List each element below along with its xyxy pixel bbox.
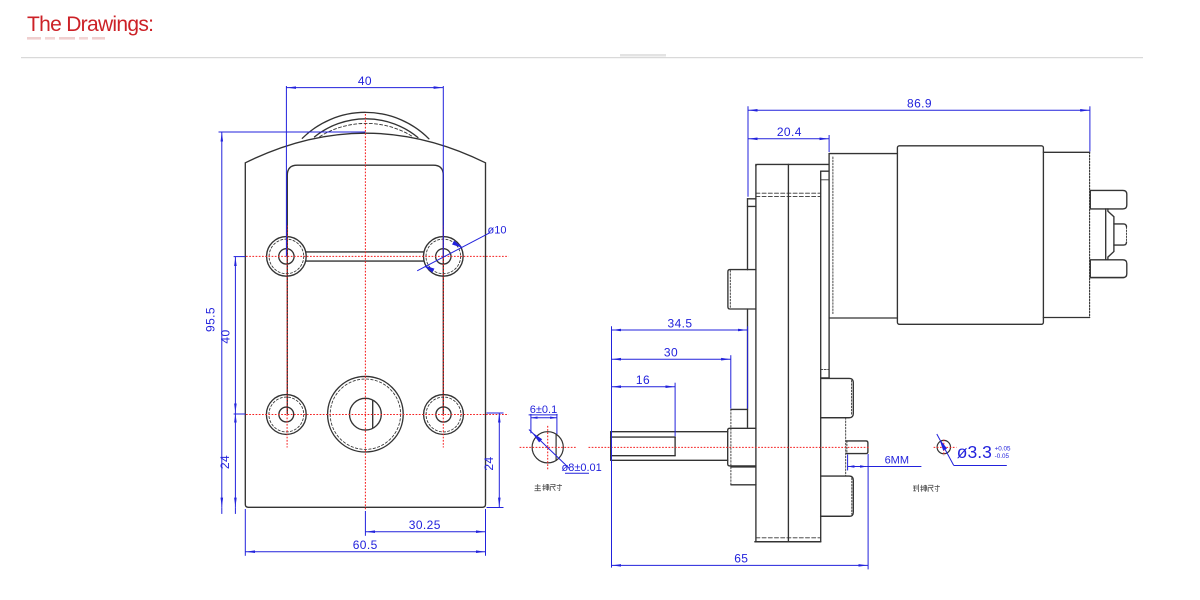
dome arc inner: [315, 119, 418, 138]
main shaft section detail circle: [532, 432, 563, 463]
front view centerlines: [246, 114, 509, 511]
rear spacer column: [821, 318, 829, 378]
end cap bottom tab: [1090, 260, 1127, 278]
gearbox plate front face: [755, 164, 757, 541]
dim 60.5: [245, 509, 485, 556]
central output hub: [328, 376, 404, 452]
rear cover top tab: [821, 378, 854, 417]
shaft boss top step: [731, 408, 748, 410]
svg-text:40: 40: [218, 329, 232, 343]
motor main cylinder: [897, 146, 1043, 324]
svg-text:30.25: 30.25: [409, 518, 441, 532]
separator line: [21, 57, 1143, 59]
hidden dashed bottom: [756, 537, 821, 539]
svg-text:30: 30: [664, 345, 678, 359]
dim 65: [612, 454, 869, 569]
dim 24 right vertical: [487, 413, 504, 508]
svg-text:6±0.1: 6±0.1: [530, 404, 557, 416]
main shaft boss: [728, 428, 756, 466]
svg-text:ø8±0.01: ø8±0.01: [562, 462, 602, 474]
plate top edge: [756, 164, 829, 166]
dim 86.9: [748, 106, 1090, 197]
leader diameter 10: [417, 233, 489, 272]
centerline horizontal upper holes: [246, 255, 509, 257]
shaft boss hidden edge: [730, 409, 732, 485]
aux detail vertical centerline: [943, 440, 945, 456]
dim 40 top: [286, 86, 443, 256]
gearbox plate rear face: [820, 171, 822, 542]
rear boss hidden edge: [845, 418, 847, 476]
svg-text:16: 16: [636, 373, 650, 387]
side view centerlines: [520, 426, 957, 471]
svg-text:34.5: 34.5: [668, 316, 693, 330]
leader diameter 8: [529, 430, 589, 474]
dim 6 plus minus 0.1: [529, 414, 558, 434]
svg-text:86.9: 86.9: [907, 97, 932, 111]
dim 30: [612, 355, 731, 408]
upper left mounting hole: [267, 237, 307, 277]
dim 20.4: [748, 135, 829, 152]
svg-text:24: 24: [218, 455, 232, 469]
dim texts front view: [204, 74, 507, 552]
plate top right step: [821, 171, 829, 180]
svg-text:+0.05: +0.05: [995, 446, 1011, 453]
leader diameter 3.3: [937, 434, 1007, 466]
svg-text:ø3.3: ø3.3: [957, 442, 992, 462]
svg-text:-0.05: -0.05: [995, 453, 1010, 460]
dim 30.25: [365, 511, 485, 536]
dim 16: [612, 383, 676, 437]
plate bottom edge: [755, 541, 821, 543]
dim texts side view: [530, 97, 1011, 566]
centerline vertical right column: [442, 226, 444, 448]
front rib: [748, 199, 756, 427]
Chinese label main shaft size: [534, 484, 562, 491]
connector housing: [1106, 209, 1114, 260]
dim 34.5: [612, 326, 748, 567]
shaft boss bottom steps: [731, 467, 756, 485]
faint marks above separator: [620, 54, 666, 57]
gearbox body outline: [245, 133, 485, 507]
rear cover bottom tab: [821, 476, 854, 516]
side view dimensions: [529, 106, 1090, 569]
dim 40 left vertical: [234, 256, 236, 413]
svg-text:6MM: 6MM: [885, 455, 909, 467]
dim 95.5 left: [219, 132, 366, 514]
svg-text:95.5: 95.5: [204, 307, 218, 332]
slot bar between upper holes: [306, 252, 423, 261]
svg-text:20.4: 20.4: [777, 125, 802, 139]
shaft flat milled: [611, 437, 675, 456]
hidden gear shaft dashed top: [756, 193, 821, 196]
svg-text:65: 65: [734, 552, 748, 566]
Chinese label aux shaft size: [913, 484, 940, 492]
centerline horizontal lower holes: [246, 414, 509, 416]
end cap top tab: [1090, 190, 1127, 209]
shaft axis centerline: [520, 446, 957, 448]
upper bearing boss: [728, 270, 756, 309]
rear shaft stub: [846, 441, 868, 454]
inner rounded cover plate: [287, 165, 443, 413]
lower left mounting hole: [266, 395, 306, 435]
centerline vertical middle: [364, 114, 366, 511]
connector plug: [1114, 224, 1127, 245]
dome arc outer: [302, 112, 429, 138]
faint remnant text under title: [27, 37, 105, 40]
aux shaft section detail circle: [937, 440, 950, 453]
dim 24 left vertical: [234, 413, 236, 507]
svg-text:24: 24: [482, 456, 496, 470]
extension ticks left: [234, 257, 246, 414]
dome arc hidden dashed: [320, 123, 413, 136]
svg-text:40: 40: [358, 74, 372, 88]
output shaft: [611, 432, 728, 461]
upper right mounting hole: [424, 237, 464, 277]
motor front ring: [829, 154, 897, 318]
gearbox plate mid line: [787, 164, 789, 541]
motor end cap: [1043, 152, 1089, 317]
dim 6MM: [848, 455, 922, 471]
lower right mounting hole: [424, 395, 464, 435]
svg-text:ø10: ø10: [488, 225, 507, 237]
svg-text:60.5: 60.5: [353, 538, 378, 552]
centerline vertical left column: [286, 226, 288, 448]
detail circle vertical centerline: [547, 426, 549, 471]
front view dimensions: [219, 86, 504, 556]
title: [27, 13, 153, 37]
